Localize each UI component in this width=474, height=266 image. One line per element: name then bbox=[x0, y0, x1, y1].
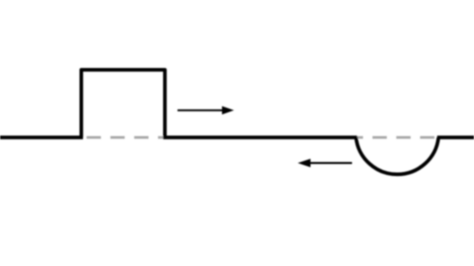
semicircular trough (downward pulse) bbox=[356, 137, 439, 174]
dashed equilibrium line under square pulse bbox=[87, 136, 164, 139]
dashed equilibrium line over trough bbox=[349, 136, 437, 139]
wire: left string segment bbox=[0, 136, 83, 140]
square pulse (upward rectangular wave pulse) bbox=[81, 70, 165, 138]
wire: right string segment bbox=[437, 136, 474, 140]
left-pointing velocity arrow bbox=[298, 159, 352, 167]
right-pointing velocity arrow bbox=[178, 106, 235, 114]
wire: middle string segment bbox=[163, 136, 357, 140]
